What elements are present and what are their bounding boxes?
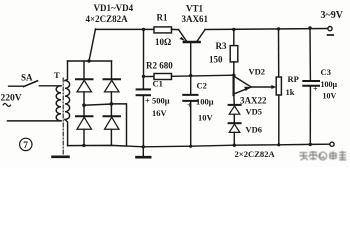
wire bridge top bus [68,60,112,62]
svg-text:10V: 10V [198,112,214,122]
wire VD4 to bottom bus [110,129,112,145]
wire VD2 to RP wiper [251,86,273,88]
capacitor C1 top lead [142,77,144,89]
capacitor C1 plates [137,88,150,90]
wire between right diodes [110,92,112,116]
wire jog from right column to bottom bus [111,104,126,145]
wire VD2 to VD5 [233,95,235,104]
terminal output positive [330,142,334,146]
ground (transformer shield) [53,156,69,159]
node bridge riser [87,59,90,62]
node AC right [110,102,114,106]
transistor VT1 emitter [179,30,187,41]
node VT1 base / C2 [189,74,192,77]
svg-text:10V: 10V [323,91,337,100]
circled figure number 7 [20,138,32,150]
wire VT1 base lead [190,43,192,75]
transistor VT1 collector [197,30,205,41]
svg-text:100μ: 100μ [196,96,214,106]
diode VD6 [229,122,241,124]
wire 220V bottom lead [8,120,62,122]
arrow RP wiper [271,85,276,89]
node bottom C3 [309,143,312,146]
wire RP bottom lead [278,95,280,145]
svg-text:+: + [313,85,318,94]
wire R1 to VT1 emitter [172,28,179,30]
svg-text:R1: R1 [157,13,168,23]
switch SA blade [24,81,38,87]
capacitor C2 top lead [190,76,192,94]
svg-text:SA: SA [21,73,33,83]
svg-text:10Ω: 10Ω [155,37,171,47]
svg-text:16V: 16V [152,108,168,118]
svg-text:R3: R3 [216,41,227,51]
svg-text:+: + [187,101,192,110]
svg-text:100μ: 100μ [321,80,338,89]
diode VD3 [76,115,93,117]
wire riser to R2/C1 [143,29,145,76]
transformer T core (shield, dash-dot) [62,78,64,155]
node rail-C3 [308,26,311,29]
svg-text:VD2: VD2 [249,67,266,77]
terminal output negative [328,27,332,31]
svg-text:VD5: VD5 [246,106,263,116]
node bottom C1/ground [142,145,145,148]
wire RP top lead [278,29,280,77]
svg-text:4×2CZ82A: 4×2CZ82A [86,14,129,24]
wire negative top rail right segment [205,29,328,30]
wire between VD1 and VD3 [83,92,85,116]
svg-text:VD6: VD6 [246,124,263,134]
wire VD3 to bottom bus [83,129,85,145]
wire AC node crossbar [84,104,111,105]
capacitor C3 plates [303,80,319,82]
diode VD1 [76,78,93,80]
wire R2 to base node to VD2 node [172,75,234,76]
wire VD5 to VD6 [233,114,235,123]
resistor R1 [154,27,172,33]
transistor VD2 collector edge [234,76,251,86]
watermark [300,151,347,160]
wire 220V top lead [9,85,24,87]
svg-text:1k: 1k [286,87,295,97]
wire riser bridge to negative rail [89,29,96,61]
resistor R3 [230,46,238,62]
svg-text:T: T [54,70,60,80]
wire R3 bottom lead [233,62,235,75]
resistor R2 [154,74,172,80]
wire left bridge column top [83,61,85,79]
svg-text:C1: C1 [153,78,163,88]
transistor VD2 (3AX22) base bar [233,75,235,95]
transformer T primary winding [56,86,61,121]
svg-text:3AX61: 3AX61 [182,14,209,24]
node AC left [82,103,86,107]
label minus polarity [328,34,334,36]
node R3 / VD2 [232,74,235,77]
ground (main) [142,147,144,156]
node rail-R3 [232,28,235,31]
wire SA to transformer primary [39,85,61,87]
svg-text:3~9V: 3~9V [321,10,344,21]
svg-text:VT1: VT1 [186,4,204,14]
node bottom RP [277,143,280,146]
svg-text:RP: RP [288,74,299,84]
node R2 left / C1 [142,75,145,78]
svg-text:220V: 220V [1,93,22,103]
node rail-RP [277,27,280,30]
node rail-R2 riser [142,28,145,31]
label AC tilde [3,104,11,107]
svg-text:2×2CZ82A: 2×2CZ82A [235,149,276,159]
wire negative top rail left segment [96,28,155,30]
svg-text:7: 7 [23,141,28,151]
node bottom VD6 [233,144,236,147]
capacitor C2 bottom lead [190,102,192,146]
wire VD6 to bottom bus [233,132,235,145]
svg-text:3AX22: 3AX22 [240,95,267,105]
node bottom-left column [82,144,85,147]
svg-text:C2: C2 [197,80,207,90]
svg-text:R2 680: R2 680 [146,60,173,70]
diode VD2b [104,78,121,80]
svg-text:VD1~VD4: VD1~VD4 [94,3,134,13]
transformer T secondary winding [65,81,70,120]
wire R3 top lead [233,30,235,46]
svg-text:C3: C3 [321,67,331,77]
svg-text:+ 500μ: + 500μ [145,95,170,105]
wire secondary top lead [65,61,68,81]
wire right bridge column top [111,61,113,79]
svg-text:150: 150 [209,54,223,64]
capacitor C3 bottom lead [309,87,311,145]
capacitor C2 plates [183,94,197,96]
transistor VD2 emitter edge with arrow [234,87,251,94]
potentiometer RP [276,77,281,95]
diode VD5 [229,104,241,106]
wire R2 left lead [144,76,155,78]
capacitor C3 top lead [309,28,311,80]
transistor VT1 base bar [184,41,200,43]
diode VD4 [104,115,121,117]
wire secondary bottom lead [65,120,68,146]
wire positive bottom rail [68,144,330,147]
capacitor C1 bottom lead [142,96,144,147]
node bottom C2 [189,145,192,148]
